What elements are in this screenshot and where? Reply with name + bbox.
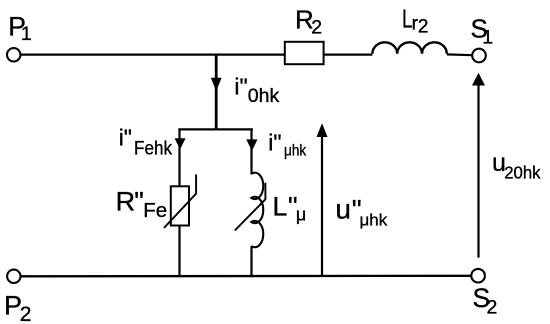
label P2 [4, 291, 31, 324]
svg-text:1: 1 [482, 27, 493, 49]
svg-text:1: 1 [21, 23, 32, 45]
current arrow iuhk [246, 139, 257, 151]
voltage arrow u''uhk head [317, 123, 328, 137]
terminal P2 [7, 270, 20, 283]
svg-text:L: L [272, 192, 287, 222]
wire R2 to Lr2 [324, 53, 373, 55]
label Lr2 [402, 3, 428, 37]
wire right branch upper [250, 128, 252, 174]
svg-text:2: 2 [418, 17, 429, 38]
wire left branch upper [178, 128, 180, 186]
label P1 [8, 12, 32, 46]
svg-text:i": i" [234, 74, 247, 100]
svg-text:u: u [335, 194, 351, 225]
inductor Lu coil [251, 173, 263, 248]
wire right branch lower [250, 246, 252, 277]
svg-text:Fehk: Fehk [134, 138, 173, 159]
voltage arrow u20hk line [477, 84, 479, 258]
terminal S1 [472, 49, 486, 63]
voltage arrow u''uhk line [321, 136, 323, 277]
svg-text:20hk: 20hk [504, 162, 541, 183]
svg-text:2: 2 [20, 303, 32, 324]
svg-text:μhk: μhk [284, 143, 307, 160]
wire Lr2 to S1 [447, 53, 472, 56]
wire left branch lower [178, 226, 180, 278]
label R2 [295, 4, 322, 38]
svg-text:μhk: μhk [360, 211, 388, 230]
svg-text:0hk: 0hk [248, 85, 280, 107]
terminal P1 [7, 48, 20, 61]
label L''u [272, 192, 306, 225]
inductor Lu variability stroke [235, 183, 266, 231]
svg-text:μ: μ [296, 205, 306, 225]
wire bottom [21, 275, 473, 278]
label i''uhk [268, 129, 306, 160]
wire P1 to R2 [20, 53, 285, 55]
resistor RFe body [171, 186, 189, 225]
wire center drop from top node [215, 53, 218, 129]
label u20hk [492, 149, 541, 183]
label S1 [471, 13, 494, 48]
svg-text:Fe: Fe [143, 199, 167, 222]
label i''Fehk [119, 125, 173, 159]
svg-text:2: 2 [311, 17, 322, 39]
svg-text:i": i" [119, 125, 132, 151]
terminal S2 [471, 269, 485, 283]
inductor Lr2 [372, 42, 446, 54]
current arrow iFehk [175, 138, 186, 149]
label i''0hk [234, 74, 279, 107]
svg-text:R: R [116, 187, 136, 217]
resistor R2 [285, 42, 324, 64]
label u''uhk [335, 194, 387, 230]
label S2 [473, 283, 498, 318]
wire split bar [178, 128, 253, 130]
svg-text:i": i" [268, 129, 281, 155]
resistor RFe variability stroke [164, 175, 196, 229]
current arrow i0hk [211, 78, 222, 92]
label R''Fe [116, 187, 168, 222]
svg-text:2: 2 [487, 296, 498, 318]
voltage arrow u20hk head [472, 73, 485, 86]
